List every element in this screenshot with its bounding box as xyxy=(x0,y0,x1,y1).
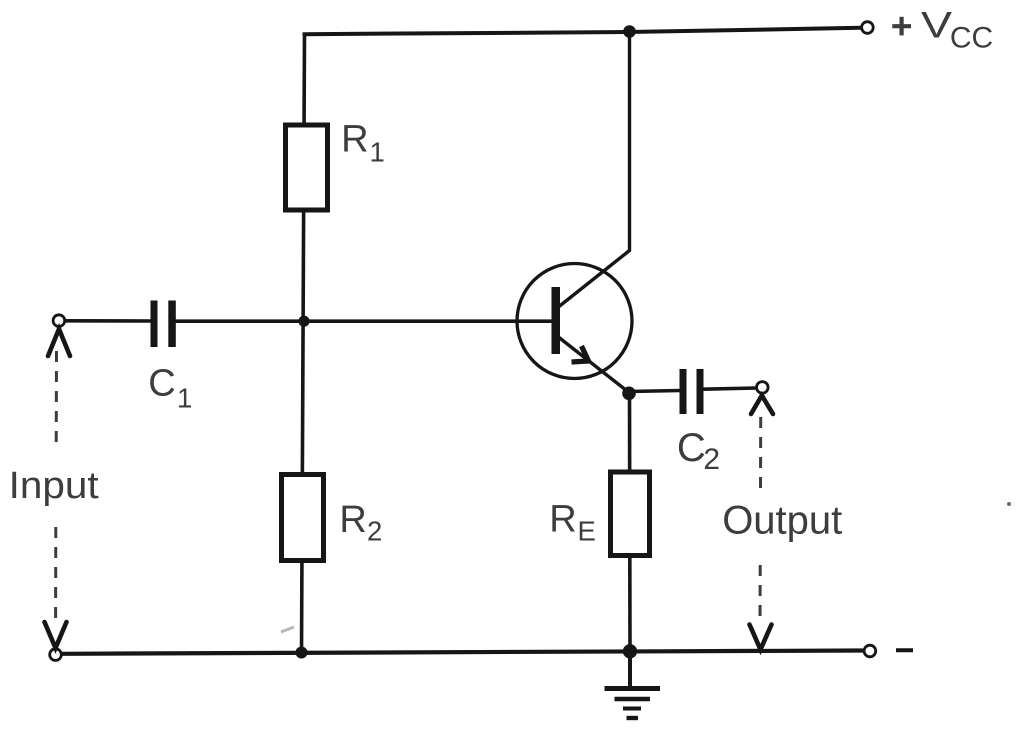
svg-text:2: 2 xyxy=(367,516,382,547)
svg-text:C: C xyxy=(677,426,706,470)
svg-text:CC: CC xyxy=(950,22,993,55)
svg-text:Input: Input xyxy=(9,465,99,507)
svg-text:R: R xyxy=(341,119,368,161)
svg-text:R: R xyxy=(549,499,576,541)
svg-text:1: 1 xyxy=(370,136,385,167)
svg-text:Output: Output xyxy=(722,499,842,543)
svg-text:C: C xyxy=(148,363,175,405)
svg-text:V: V xyxy=(921,5,952,46)
svg-text:R: R xyxy=(339,499,366,541)
svg-text:E: E xyxy=(578,516,596,547)
svg-text:1: 1 xyxy=(177,382,192,413)
svg-text:2: 2 xyxy=(703,443,720,476)
